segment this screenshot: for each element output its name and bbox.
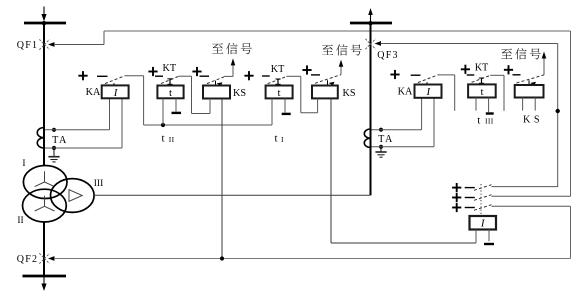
- plus terminal (KS2): [302, 65, 311, 74]
- wire: trip QF3 horizontal: [381, 43, 558, 45]
- plus terminal (trip row 1): [452, 183, 461, 192]
- wire: TA2 a to KA: [372, 98, 422, 130]
- gas relay coil (I): [470, 216, 497, 230]
- fixed contact dash (KS1): [200, 75, 210, 77]
- wire: KT coil feed rail: [144, 124, 272, 126]
- wire: KS2 coil pin to gas relay: [331, 98, 476, 243]
- svg-text:KA: KA: [86, 87, 101, 98]
- fixed contact dash (KT III): [467, 74, 475, 76]
- trip arrow into QF2: [48, 256, 55, 261]
- svg-text:I: I: [22, 159, 25, 169]
- contact blade KA2 (dashed): [418, 75, 438, 83]
- label TA (left): [52, 135, 68, 146]
- wire: TA1 a to KA: [45, 98, 110, 130]
- node: TA2 secondary b: [379, 145, 383, 149]
- bus II vertical (transformer winding II down): [43, 222, 45, 276]
- label t inside KT II: [169, 87, 172, 99]
- fixed contact dash (trip row 3): [465, 207, 475, 209]
- label t inside KT I: [277, 87, 280, 99]
- minus terminal below KT II: [172, 112, 182, 114]
- label t I: [274, 133, 284, 145]
- ground at TA2: [375, 147, 386, 157]
- star symbol winding II: [35, 196, 55, 211]
- label to-signal 2: [322, 44, 362, 55]
- fixed contact dash (KT II): [155, 75, 163, 77]
- svg-text:II: II: [169, 135, 175, 144]
- label KT (right): [475, 63, 489, 74]
- delayed-contact anchor KT I: [275, 79, 280, 85]
- svg-text:t: t: [477, 114, 480, 126]
- wire: KT II coil pins: [163, 98, 176, 125]
- svg-text:t: t: [480, 86, 483, 98]
- label KS (right): [523, 115, 543, 126]
- busbar II: [23, 275, 67, 278]
- wire: gas relay pin left: [475, 230, 477, 243]
- svg-text:t: t: [274, 133, 277, 145]
- wire: KS3 contact to signal arrow: [542, 52, 547, 75]
- transformer winding I (circle, star): [23, 166, 67, 199]
- trip arrow into QF3: [375, 41, 382, 46]
- node: TA1 secondary b: [52, 146, 56, 150]
- time relay KT I coil: [266, 86, 293, 99]
- wire: trip QF1 riser: [103, 31, 105, 45]
- star symbol winding I: [35, 171, 55, 186]
- svg-text:QF3: QF3: [377, 50, 398, 61]
- moving contact stub KS1: [216, 81, 223, 86]
- wire: KT III contact stub down: [490, 75, 504, 111]
- current transformer TA (bus III): [364, 129, 370, 148]
- wire: row 2 to QF1 riser: [492, 195, 571, 197]
- wire: KA1 contact to KT coils: [125, 76, 144, 125]
- signal relay KS2 wire down crossing: [0, 0, 1, 1]
- label I inside KA2: [425, 86, 431, 98]
- contact blade row 3 (dashed): [474, 205, 492, 211]
- fixed contact dash (KS2): [311, 74, 320, 76]
- wire: winding III to bus III: [94, 194, 371, 196]
- label KA (left): [86, 87, 101, 98]
- label KT (middle): [271, 64, 285, 75]
- wire: KS1 contact to signal arrow: [224, 58, 235, 76]
- contact blade KS2 (dashed): [315, 75, 341, 84]
- fixed contact dash (KA2): [411, 74, 421, 76]
- plus terminal (trip row 2): [452, 193, 461, 202]
- label winding II: [17, 216, 23, 226]
- busbar I: [24, 22, 66, 25]
- fixed contact dash (trip row 1): [465, 187, 475, 189]
- wire: KT II contact to KS coil: [178, 76, 210, 113]
- contact blade KS1 (dashed): [207, 77, 224, 84]
- fixed contact dash (KT I): [262, 75, 270, 77]
- bus III outgoing feeder arrow: [368, 8, 373, 23]
- svg-text:KT: KT: [475, 63, 489, 74]
- label t III: [477, 114, 493, 126]
- wire: KS3 coil pins: [523, 98, 536, 111]
- label KT (left): [163, 63, 177, 74]
- wire: KT I coil pins: [272, 98, 285, 125]
- svg-text:KS: KS: [523, 115, 543, 126]
- svg-text:TA: TA: [378, 134, 394, 145]
- contact blade KA1 (dashed): [105, 76, 125, 84]
- node: junction on QF3 riser: [556, 109, 560, 113]
- delayed-contact anchor KT II: [167, 79, 172, 86]
- svg-text:t: t: [277, 87, 280, 99]
- breaker QF1 (X symbol): [39, 39, 49, 49]
- busbar III: [350, 22, 392, 25]
- label winding III: [94, 179, 104, 189]
- svg-text:TA: TA: [52, 135, 68, 146]
- contact blade KT III (dashed, delayed): [472, 75, 491, 82]
- wire: KS1 coil pin left: [209, 99, 211, 114]
- svg-text:t: t: [169, 87, 172, 99]
- contact blade row 1 (dashed): [474, 185, 492, 191]
- contact blade KT I (dashed, delayed): [268, 77, 287, 84]
- label I inside gas relay: [480, 218, 486, 230]
- svg-text:KS: KS: [342, 88, 355, 99]
- wire: KA2 contact stub down: [438, 75, 455, 111]
- plus terminal (KA1): [78, 71, 87, 80]
- wire: KT III coil pins: [476, 98, 489, 113]
- node: KS1 on QF2 trip rail: [220, 256, 224, 260]
- moving contact stub KS3: [529, 80, 536, 85]
- svg-text:QF1: QF1: [17, 40, 38, 51]
- fixed contact dash (KA1): [97, 75, 108, 77]
- moving contact stub KA2: [426, 82, 428, 84]
- wire: TA2 b to KA: [372, 98, 435, 147]
- wire: top trip rail (to QF1): [104, 30, 571, 32]
- wire: KS2 contact to signal arrow: [339, 60, 344, 75]
- transformer winding II (circle, star): [23, 189, 67, 222]
- relay KA2 (current relay): [415, 85, 442, 98]
- svg-text:II: II: [17, 216, 23, 226]
- svg-text:KT: KT: [163, 63, 177, 74]
- wire: TA1 b to KA: [45, 98, 122, 148]
- plus terminal (KT I): [244, 71, 253, 80]
- fixed contact dash (trip row 2): [465, 197, 475, 199]
- minus terminal below KT III: [486, 112, 494, 114]
- time relay KT II coil: [157, 86, 183, 99]
- node: bus III junction: [368, 21, 372, 25]
- plus terminal (KA2): [390, 70, 399, 79]
- bus I incoming feeder arrow: [41, 7, 46, 22]
- svg-text:QF2: QF2: [17, 254, 38, 265]
- label winding I: [22, 159, 25, 169]
- label KS (left 1): [233, 88, 246, 99]
- wire: gas relay pin right: [488, 230, 490, 242]
- minus terminal below KT I: [282, 113, 291, 115]
- label t inside KT III: [480, 86, 483, 98]
- node: TA2 secondary a: [379, 128, 383, 132]
- svg-text:III: III: [485, 117, 494, 126]
- moving contact stub KA1: [113, 83, 115, 85]
- node: KT II coil tap: [161, 123, 165, 127]
- wire: right riser to QF2 rail: [570, 206, 572, 258]
- plus terminal (KT II): [148, 67, 157, 76]
- svg-text:KT: KT: [271, 64, 285, 75]
- wire: right riser to QF1 rail: [570, 31, 572, 196]
- relay KA1 (current relay): [102, 85, 129, 98]
- plus terminal (KS1): [192, 67, 201, 76]
- moving contact stub KS2: [328, 80, 335, 85]
- contact blade KS3 (dashed): [517, 75, 545, 83]
- svg-text:KA: KA: [398, 87, 413, 98]
- plus terminal (trip row 3): [452, 203, 461, 212]
- time relay KT III coil: [468, 84, 496, 97]
- wire: trip QF1 horizontal: [54, 44, 104, 46]
- svg-text:KS: KS: [233, 88, 246, 99]
- wire: KS1 coil pin to QF2 trip rail: [221, 99, 223, 259]
- wire: row 3 to QF2 riser: [492, 205, 571, 207]
- signal relay KS2 coil: [312, 86, 338, 99]
- fixed contact dash (KS3): [513, 74, 521, 76]
- bus III vertical (to transformer winding III): [370, 23, 372, 195]
- breaker QF3 (X symbol): [365, 39, 375, 49]
- mechanical linkage (dashed): [480, 184, 482, 216]
- delayed-contact anchor KT III: [479, 78, 484, 84]
- label QF1: [17, 40, 38, 51]
- bus II outgoing feeder arrow: [41, 276, 46, 291]
- contact blade row 2 (dashed): [474, 195, 492, 201]
- node: TA1 secondary a: [52, 128, 56, 132]
- wire: right riser to QF3 rail: [557, 44, 559, 188]
- wire: trip QF2 rail (bottom): [54, 258, 571, 260]
- label KA (right): [398, 87, 413, 98]
- wire: KT I contact to KS coil: [286, 76, 317, 112]
- label QF2: [17, 254, 38, 265]
- ground at TA1: [48, 148, 59, 162]
- bus I vertical (to transformer winding I): [43, 23, 45, 166]
- signal relay KS3 coil: [515, 85, 544, 98]
- label I inside KA1: [113, 87, 119, 99]
- minus terminal below gas relay: [484, 243, 494, 245]
- svg-text:III: III: [94, 179, 104, 189]
- svg-text:t: t: [161, 133, 164, 145]
- label to-signal 1: [212, 43, 252, 54]
- label QF3: [377, 50, 398, 61]
- delta symbol winding III: [69, 190, 82, 202]
- contact blade KT II (dashed, delayed): [161, 76, 178, 83]
- label TA (right): [378, 134, 394, 145]
- node: bus I junction: [42, 21, 46, 25]
- wire: KS2 coil pin left: [317, 98, 319, 112]
- breaker QF2 (X symbol): [39, 253, 49, 263]
- transformer winding III (circle, delta): [51, 179, 95, 213]
- current transformer TA (bus I): [37, 128, 44, 149]
- plus terminal (KT III): [461, 65, 470, 74]
- label t II: [161, 133, 174, 145]
- signal relay KS1 coil: [203, 86, 230, 99]
- trip arrow into QF1: [48, 42, 55, 47]
- label KS (left 2): [342, 88, 355, 99]
- label to-signal 3: [501, 48, 541, 59]
- wire: row 1 to QF3 riser: [492, 186, 558, 188]
- plus terminal (KS3): [504, 65, 513, 74]
